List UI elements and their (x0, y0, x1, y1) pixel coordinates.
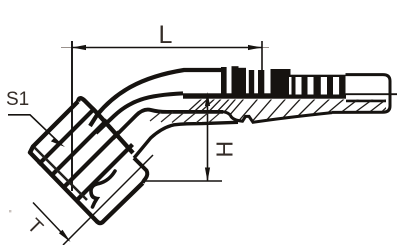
nut internal flat line D4 (76, 145, 133, 202)
collar rib B2 (239, 68, 247, 97)
elbow tube curve t2 (96, 93, 183, 133)
hex nut: NW edge, chamfer, end face, bottom corner, SE edge (30, 102, 143, 224)
nut internal flat line D3 (63, 132, 120, 189)
centerline band of shank (183, 93, 346, 98)
shank end cap (332, 75, 390, 113)
H arrow bottom (205, 168, 210, 182)
T arrowhead (59, 230, 71, 242)
serration band with slots (271, 69, 346, 97)
shank bore bottom line (346, 100, 386, 103)
H extension line bottom (143, 180, 222, 182)
collar rib A (221, 67, 227, 96)
nut internal flat line D1 (39, 108, 96, 165)
L extension line right (261, 41, 263, 70)
collar rib B1 (232, 66, 239, 96)
dimension T line (33, 203, 69, 241)
collar face and hook at tube junction (134, 158, 147, 183)
svg-text:H: H (211, 141, 237, 158)
faint dot artifact (9, 210, 11, 212)
shank centerline right thin (346, 93, 397, 95)
collar rib D (258, 70, 264, 96)
dimension H line (207, 94, 209, 181)
hex nut rounded top corner and NE face (78, 98, 133, 153)
dimension L line (72, 47, 262, 49)
L arrow right (248, 45, 262, 50)
squiggle inside nut (91, 171, 115, 207)
L arrow left (72, 45, 86, 50)
elbow tube outer bottom curve t4 (134, 122, 238, 158)
svg-text:L: L (159, 21, 173, 49)
section hatching bend (150, 112, 220, 123)
H arrow top (205, 92, 210, 106)
svg-text:S1: S1 (6, 89, 29, 110)
S1 leader line (8, 115, 60, 144)
nut washer line near end face (35, 148, 88, 201)
L extension line left (71, 41, 73, 191)
elbow tube outer top curve t1 (90, 70, 221, 126)
thin 45deg centerline extension near T (63, 155, 153, 245)
bottom profile with step and notch (223, 112, 332, 123)
collar rib C (249, 70, 254, 96)
elbow tube curve t3 (113, 110, 223, 139)
nut internal flat line D2 (51, 120, 108, 177)
S1 arrowhead (51, 138, 65, 147)
